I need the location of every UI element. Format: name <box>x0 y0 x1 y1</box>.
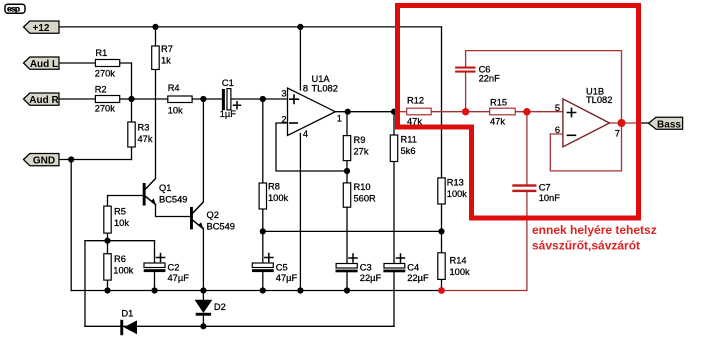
wire R7 top lead <box>155 27 157 46</box>
svg-text:C1: C1 <box>222 78 234 88</box>
wire C6 top feedback run <box>466 51 622 123</box>
resistor R3 <box>128 122 153 147</box>
thick red highlight box <box>398 6 639 219</box>
resistor R9 <box>343 135 369 161</box>
wire node A to R4 <box>132 98 168 100</box>
wire R4 to C1 <box>192 98 222 100</box>
resistor R15 <box>490 97 516 126</box>
svg-text:D2: D2 <box>214 302 226 312</box>
svg-text:esp: esp <box>7 4 20 14</box>
svg-text:100k: 100k <box>450 267 471 277</box>
node GND <box>68 156 74 162</box>
diode D2 <box>195 300 226 316</box>
wire C5 bottom to bus <box>262 272 264 291</box>
svg-text:Aud L: Aud L <box>30 59 58 70</box>
node R11 top <box>391 109 397 115</box>
wire R10 bottom to C3 <box>346 207 348 263</box>
connector tag +12 <box>24 21 60 34</box>
node red R12/C6 <box>462 108 469 115</box>
svg-text:R15: R15 <box>490 97 507 107</box>
node red R15/C7 <box>523 108 530 115</box>
wire C2 top lead <box>154 241 156 263</box>
capacitor C3 <box>336 254 382 283</box>
svg-text:27k: 27k <box>354 147 369 157</box>
node +12/U1A pin8 <box>297 24 303 30</box>
wire C7 top lead <box>526 112 528 185</box>
wire Aud R to R2 <box>59 98 95 100</box>
svg-text:1k: 1k <box>161 56 171 66</box>
annotation red text <box>532 223 657 253</box>
node R5/R6 <box>104 238 110 244</box>
wire R5 top to Q1 base <box>108 196 143 207</box>
svg-text:R1: R1 <box>95 48 107 58</box>
resistor R6 <box>104 254 134 280</box>
svg-text:10nF: 10nF <box>539 193 561 203</box>
wire node D to node E line <box>263 230 442 232</box>
svg-text:Bass: Bass <box>657 119 681 130</box>
wire node B down to Q2 collector <box>202 99 204 202</box>
svg-text:2: 2 <box>281 115 286 125</box>
svg-text:C5: C5 <box>276 262 288 272</box>
connector tag Aud L <box>24 57 60 70</box>
svg-text:+12: +12 <box>33 23 50 34</box>
wire U1B output <box>610 122 641 124</box>
node C3 bus <box>344 287 350 293</box>
wire node C down to R8 <box>262 99 264 183</box>
node U1A pin4 bus <box>297 287 303 293</box>
svg-text:Q1: Q1 <box>159 183 171 193</box>
wire +12 rail <box>59 26 442 28</box>
wire C4 bottom to diode bus <box>393 272 395 326</box>
wire Aud L to R1 <box>59 62 95 64</box>
op-amp U1A <box>281 74 342 139</box>
svg-text:C2: C2 <box>168 262 180 272</box>
resistor R13 <box>438 178 468 205</box>
node feedback R9/R10 <box>344 168 350 174</box>
wire red bus segment <box>442 290 527 292</box>
op-amp U1B <box>555 86 620 146</box>
node R6 bus <box>104 287 110 293</box>
svg-text:BC549: BC549 <box>207 221 235 231</box>
resistor R5 <box>104 206 130 233</box>
wire feedback to U1A pin 2 <box>276 123 347 171</box>
svg-text:7: 7 <box>615 129 620 139</box>
wire R11 top lead <box>393 112 395 135</box>
svg-text:22µF: 22µF <box>407 273 429 283</box>
wire R11 bottom to C4 <box>393 162 395 264</box>
resistor R11 <box>390 135 417 162</box>
capacitor C1 <box>220 78 241 119</box>
capacitor C7 <box>512 183 560 203</box>
svg-text:270k: 270k <box>95 69 116 79</box>
wire U1B pin 6 feedback <box>550 123 621 171</box>
node D2 diode bus <box>200 323 206 329</box>
wire R1 right elbow <box>120 63 132 99</box>
svg-text:47k: 47k <box>490 117 505 127</box>
resistor R7 <box>152 44 173 70</box>
node C5 bus <box>260 287 266 293</box>
node B R4/C1 <box>200 96 206 102</box>
wire C1 to U1A pin 3 <box>231 98 288 100</box>
svg-text:C4: C4 <box>407 262 419 272</box>
svg-text:R13: R13 <box>447 178 464 188</box>
svg-text:560R: 560R <box>354 194 377 204</box>
resistor R14 <box>438 253 470 280</box>
transistor Q1 <box>143 179 188 206</box>
svg-text:4: 4 <box>303 129 308 139</box>
resistor R10 <box>343 182 376 207</box>
wire C6 bottom lead <box>465 73 467 112</box>
svg-text:U1A: U1A <box>312 74 331 84</box>
svg-text:R8: R8 <box>268 181 280 191</box>
resistor R12 <box>407 96 432 127</box>
node E R13/R14 <box>438 228 444 234</box>
wire R7 bottom to Q1 collector <box>155 70 157 178</box>
node +12/R7 <box>152 24 158 30</box>
wire ground bus <box>71 290 441 292</box>
connector tag Aud R <box>24 93 60 106</box>
node red U1B output <box>618 119 626 127</box>
svg-text:R3: R3 <box>138 123 150 133</box>
resistor R4 <box>168 83 192 116</box>
diode D1 <box>120 309 137 336</box>
wire GND descender <box>70 160 72 291</box>
capacitor C5 <box>252 254 297 284</box>
svg-text:100k: 100k <box>447 189 468 199</box>
svg-text:8: 8 <box>303 83 308 93</box>
node D R8/C5 <box>260 228 266 234</box>
svg-text:R2: R2 <box>95 84 107 94</box>
svg-text:47µF: 47µF <box>276 273 298 283</box>
resistor R2 <box>95 84 120 113</box>
resistor R8 <box>259 181 288 209</box>
node red R14 bus <box>438 287 445 294</box>
node C2 bus <box>151 287 157 293</box>
svg-text:R4: R4 <box>168 83 180 93</box>
svg-text:C3: C3 <box>360 262 372 272</box>
connector tag GND <box>24 154 60 167</box>
wire U1A pin 4 to bus <box>299 134 301 291</box>
wire R5 R6 C2 row <box>85 240 155 242</box>
wire R6 top lead <box>107 241 109 254</box>
node U1A output <box>345 109 351 115</box>
svg-text:47k: 47k <box>138 134 153 144</box>
wire D2 top lead <box>202 291 204 300</box>
svg-text:R14: R14 <box>450 255 467 265</box>
node A mix <box>128 96 134 102</box>
svg-text:D1: D1 <box>121 309 133 319</box>
connector tag Bass <box>649 117 683 130</box>
svg-text:ennek helyére tehetsz: ennek helyére tehetsz <box>532 223 657 237</box>
wire Q1 emitter to Q2 base <box>156 205 191 217</box>
svg-text:BC549: BC549 <box>159 195 187 205</box>
wire C2 bottom to bus <box>154 272 156 291</box>
wire R3 top lead <box>131 99 133 122</box>
wire left riser <box>84 241 86 327</box>
wire C3 bottom to bus <box>346 272 348 291</box>
wire R5 bottom lead <box>107 233 109 241</box>
svg-text:6: 6 <box>555 125 560 135</box>
svg-text:R11: R11 <box>401 135 417 145</box>
svg-text:R6: R6 <box>114 254 126 264</box>
capacitor C6 <box>455 65 500 84</box>
wire R2 to node A <box>120 98 132 100</box>
capacitor C4 <box>383 254 429 283</box>
wire R3 bottom lead <box>131 147 133 160</box>
svg-text:270k: 270k <box>95 104 116 114</box>
svg-text:3: 3 <box>281 89 286 99</box>
wire node E to R14 <box>441 231 443 252</box>
svg-text:R5: R5 <box>114 207 126 217</box>
svg-text:C7: C7 <box>539 183 551 193</box>
svg-text:100k: 100k <box>113 265 134 275</box>
svg-text:GND: GND <box>33 156 55 167</box>
wire +12 elbow down to R13 <box>441 27 443 178</box>
node C C1/pin3 <box>260 96 266 102</box>
esp logo <box>5 4 25 14</box>
wire diode bus <box>85 325 394 327</box>
svg-text:TL082: TL082 <box>586 95 612 105</box>
svg-text:R7: R7 <box>161 44 173 54</box>
wire D2 bottom lead <box>202 315 204 326</box>
svg-text:10k: 10k <box>168 106 183 116</box>
svg-text:5: 5 <box>555 103 560 113</box>
svg-text:10k: 10k <box>114 218 129 228</box>
capacitor C2 <box>144 254 189 284</box>
wire R14 bottom lead <box>441 279 443 290</box>
svg-text:1µF: 1µF <box>220 109 237 119</box>
wire R10 top lead <box>346 171 348 183</box>
wire R9 top lead <box>346 112 348 136</box>
wire R8 bottom to node D <box>262 209 264 231</box>
svg-text:Q2: Q2 <box>207 210 219 220</box>
svg-text:R12: R12 <box>407 96 424 106</box>
svg-text:47µF: 47µF <box>168 273 190 283</box>
wire node D to C5 <box>262 231 264 263</box>
svg-text:5k6: 5k6 <box>401 146 416 156</box>
transistor Q2 <box>190 202 235 231</box>
svg-text:R9: R9 <box>354 135 366 145</box>
wire U1A output <box>335 111 397 113</box>
wire Q2 emitter down to bus <box>202 228 204 290</box>
wire red signal R12 R15 row <box>398 111 563 113</box>
svg-text:22µF: 22µF <box>360 273 382 283</box>
wire R13 bottom to node E <box>441 204 443 231</box>
node D2 bus <box>200 287 206 293</box>
wire R9 bottom to feedback node <box>346 161 348 172</box>
svg-text:Aud R: Aud R <box>29 95 59 106</box>
wire U1A pin 8 supply <box>299 27 301 90</box>
wire GND to R3 <box>59 159 132 161</box>
wire R6 bottom lead <box>107 280 109 290</box>
svg-text:22nF: 22nF <box>479 74 501 84</box>
svg-text:R10: R10 <box>354 182 371 192</box>
wire output to Bass tag <box>641 122 649 124</box>
svg-text:100k: 100k <box>268 193 289 203</box>
resistor R1 <box>95 48 120 79</box>
wire C7 bottom lead <box>526 192 528 290</box>
svg-text:TL082: TL082 <box>312 84 338 94</box>
svg-text:sávszűrőt,sávzárót: sávszűrőt,sávzárót <box>532 239 640 253</box>
svg-text:1: 1 <box>337 114 342 124</box>
